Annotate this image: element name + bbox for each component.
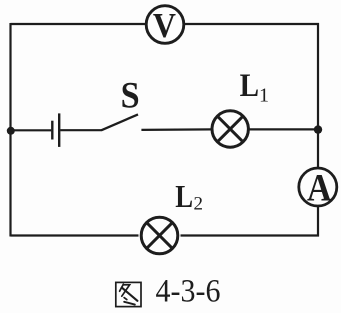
node left junction bbox=[7, 127, 15, 135]
wire left vertical bbox=[9, 23, 11, 237]
caption character 图 (hand-drawn) bbox=[116, 282, 141, 306]
battery cell bbox=[52, 113, 59, 146]
svg-text:1: 1 bbox=[259, 85, 269, 107]
wire right vertical upper bbox=[317, 23, 319, 168]
wire bottom-right segment bbox=[181, 234, 320, 236]
svg-text:S: S bbox=[121, 74, 140, 115]
node right junction bbox=[314, 125, 322, 133]
caption text 4-3-6 bbox=[156, 272, 221, 309]
lamp L2 bbox=[141, 217, 178, 254]
label L1 bbox=[240, 66, 269, 106]
lamp L1 bbox=[212, 111, 248, 147]
wire L1 to right node bbox=[249, 128, 319, 130]
svg-text:A: A bbox=[307, 165, 332, 209]
label S bbox=[121, 74, 140, 115]
label L2 bbox=[175, 180, 203, 215]
wire battery to switch bbox=[60, 129, 102, 131]
wire switch to lamp L1 bbox=[141, 128, 212, 131]
switch S blade bbox=[102, 114, 139, 130]
wire bottom-left segment bbox=[11, 234, 139, 236]
wire top-right segment bbox=[184, 23, 320, 25]
ammeter A bbox=[299, 165, 337, 209]
svg-text:4-3-6: 4-3-6 bbox=[156, 272, 221, 309]
wire battery left lead bbox=[11, 129, 52, 131]
svg-text:L: L bbox=[240, 66, 259, 103]
svg-text:L: L bbox=[175, 180, 193, 215]
svg-text:V: V bbox=[153, 7, 176, 46]
svg-text:2: 2 bbox=[194, 193, 204, 214]
voltmeter V bbox=[146, 6, 184, 46]
wire top-left segment bbox=[11, 23, 147, 25]
wire right vertical lower bbox=[317, 206, 319, 237]
